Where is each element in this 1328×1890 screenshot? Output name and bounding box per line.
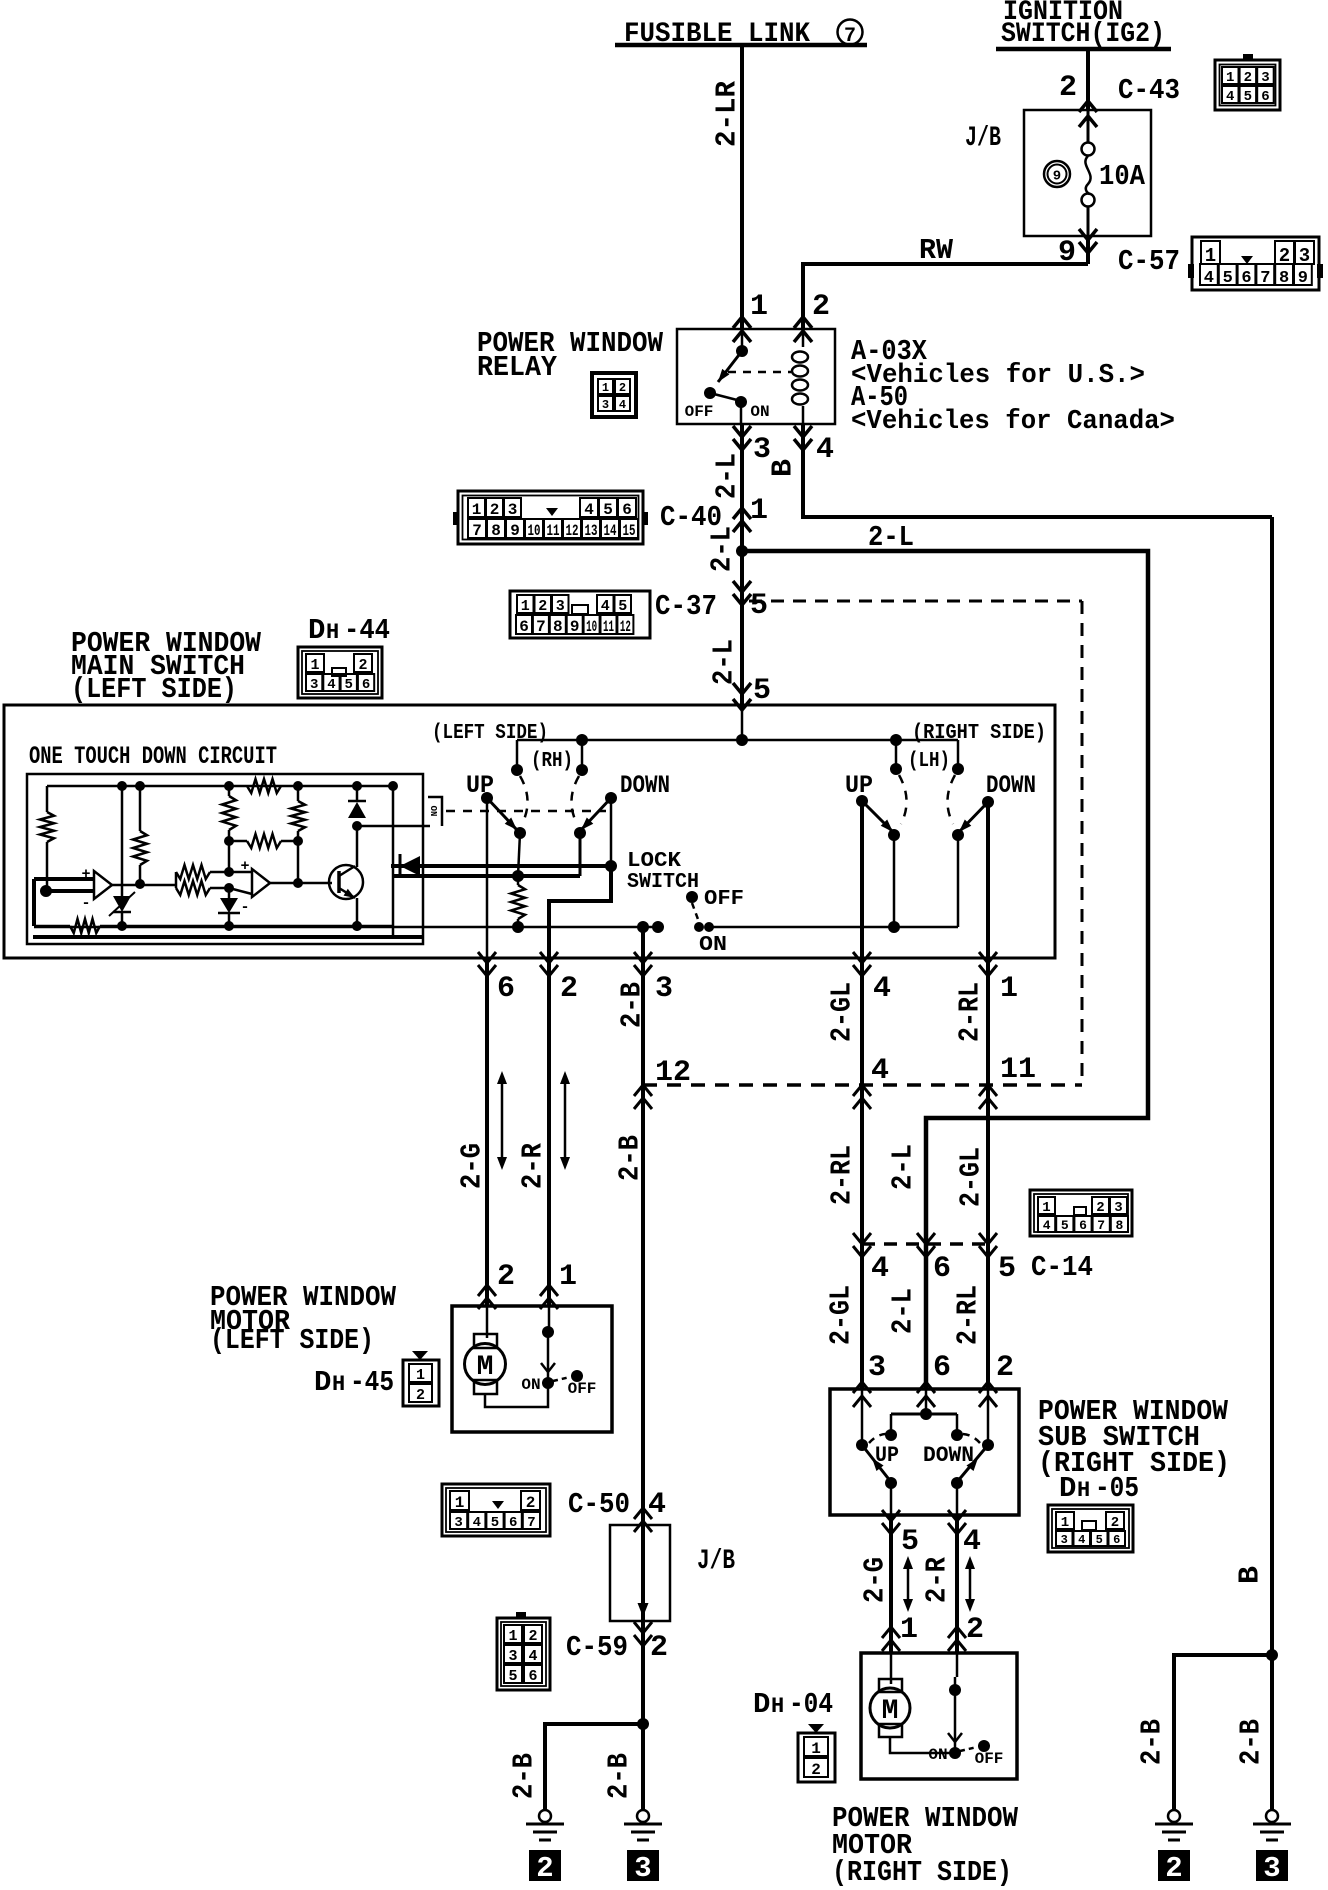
svg-text:10A: 10A bbox=[1099, 160, 1146, 193]
svg-text:3: 3 bbox=[508, 501, 518, 519]
svg-text:(RIGHT SIDE): (RIGHT SIDE) bbox=[912, 722, 1046, 745]
svg-text:2-LR: 2-LR bbox=[711, 80, 744, 147]
svg-text:2: 2 bbox=[536, 1852, 553, 1885]
svg-text:2: 2 bbox=[497, 1260, 515, 1294]
svg-text:7: 7 bbox=[536, 618, 546, 636]
svg-text:5: 5 bbox=[508, 1668, 517, 1685]
svg-text:2: 2 bbox=[490, 501, 500, 519]
svg-text:ON: ON bbox=[928, 1746, 947, 1764]
svg-text:1: 1 bbox=[521, 598, 530, 615]
svg-text:(LH): (LH) bbox=[908, 750, 950, 773]
svg-text:6: 6 bbox=[497, 972, 515, 1006]
svg-text:3: 3 bbox=[1061, 1533, 1068, 1547]
svg-text:2: 2 bbox=[1059, 71, 1077, 105]
svg-text:ONE TOUCH DOWN CIRCUIT: ONE TOUCH DOWN CIRCUIT bbox=[29, 742, 277, 771]
svg-text:6: 6 bbox=[362, 677, 370, 693]
svg-text:4: 4 bbox=[871, 1252, 889, 1286]
svg-text:-05: -05 bbox=[1095, 1472, 1139, 1505]
svg-text:2: 2 bbox=[560, 972, 578, 1006]
svg-text:3: 3 bbox=[1114, 1200, 1122, 1216]
svg-text:11: 11 bbox=[603, 618, 614, 636]
svg-text:1: 1 bbox=[750, 290, 768, 324]
svg-text:C-37: C-37 bbox=[655, 590, 717, 623]
svg-text:3: 3 bbox=[310, 677, 318, 693]
svg-text:2: 2 bbox=[650, 1631, 668, 1665]
svg-text:2: 2 bbox=[966, 1613, 984, 1647]
svg-text:5: 5 bbox=[1061, 1218, 1069, 1233]
svg-text:1: 1 bbox=[900, 1613, 918, 1647]
svg-text:6: 6 bbox=[622, 501, 632, 519]
svg-text:5: 5 bbox=[491, 1515, 499, 1531]
svg-text:6: 6 bbox=[509, 1515, 517, 1531]
svg-text:6: 6 bbox=[519, 618, 529, 636]
svg-text:OFF: OFF bbox=[704, 888, 744, 911]
svg-text:4: 4 bbox=[327, 677, 335, 693]
svg-text:2-GL: 2-GL bbox=[825, 1285, 858, 1345]
svg-text:D: D bbox=[1059, 1472, 1076, 1505]
svg-text:9: 9 bbox=[1053, 169, 1061, 185]
svg-text:2: 2 bbox=[1165, 1852, 1182, 1885]
svg-text:3: 3 bbox=[556, 598, 565, 615]
svg-text:11: 11 bbox=[547, 522, 560, 540]
svg-text:4: 4 bbox=[584, 501, 594, 519]
svg-text:B: B bbox=[1234, 1566, 1267, 1584]
svg-text:12: 12 bbox=[566, 522, 579, 540]
svg-text:2: 2 bbox=[1111, 1515, 1119, 1531]
svg-text:5: 5 bbox=[618, 598, 627, 615]
svg-text:OFF: OFF bbox=[975, 1750, 1004, 1768]
svg-text:2-L: 2-L bbox=[868, 521, 914, 554]
svg-text:3: 3 bbox=[634, 1852, 651, 1885]
svg-text:2-B: 2-B bbox=[1136, 1719, 1169, 1765]
svg-text:DOWN: DOWN bbox=[986, 771, 1036, 800]
svg-text:C-14: C-14 bbox=[1031, 1251, 1093, 1284]
svg-text:C-57: C-57 bbox=[1118, 245, 1180, 278]
svg-text:6: 6 bbox=[933, 1351, 951, 1385]
svg-text:H: H bbox=[771, 1694, 784, 1719]
svg-text:10: 10 bbox=[528, 522, 541, 540]
svg-text:M: M bbox=[477, 1352, 494, 1383]
svg-text:RELAY: RELAY bbox=[477, 351, 558, 384]
svg-text:4: 4 bbox=[1204, 269, 1214, 288]
svg-text:H: H bbox=[1077, 1478, 1090, 1503]
svg-text:M: M bbox=[882, 1696, 899, 1727]
svg-text:1: 1 bbox=[508, 1628, 517, 1645]
svg-text:5: 5 bbox=[603, 501, 613, 519]
svg-text:9: 9 bbox=[510, 522, 520, 540]
svg-text:4: 4 bbox=[816, 433, 834, 467]
svg-text:1: 1 bbox=[750, 494, 768, 528]
svg-text:2: 2 bbox=[811, 1761, 821, 1779]
svg-text:DOWN: DOWN bbox=[620, 771, 670, 800]
svg-text:1: 1 bbox=[811, 1740, 821, 1758]
svg-text:4: 4 bbox=[619, 398, 626, 412]
svg-text:2: 2 bbox=[812, 290, 830, 324]
svg-text:SWITCH: SWITCH bbox=[627, 871, 699, 894]
svg-text:SWITCH(IG2): SWITCH(IG2) bbox=[1001, 19, 1165, 50]
svg-text:6: 6 bbox=[528, 1668, 537, 1685]
svg-text:13: 13 bbox=[585, 522, 598, 540]
svg-text:7: 7 bbox=[527, 1515, 535, 1531]
svg-text:2-B: 2-B bbox=[603, 1753, 636, 1799]
svg-text:D: D bbox=[308, 614, 325, 647]
svg-text:C-50: C-50 bbox=[568, 1488, 630, 1521]
svg-text:4: 4 bbox=[648, 1488, 666, 1522]
svg-text:-45: -45 bbox=[350, 1366, 394, 1399]
svg-text:3: 3 bbox=[454, 1515, 462, 1531]
svg-text:7: 7 bbox=[1260, 269, 1270, 288]
svg-text:-44: -44 bbox=[344, 614, 390, 647]
svg-text:J/B: J/B bbox=[965, 123, 1001, 154]
svg-text:OFF: OFF bbox=[568, 1380, 597, 1398]
svg-text:2-L: 2-L bbox=[711, 453, 744, 499]
svg-text:J/B: J/B bbox=[697, 1546, 735, 1577]
svg-text:2: 2 bbox=[538, 598, 547, 615]
svg-text:(RH): (RH) bbox=[531, 750, 573, 773]
svg-text:2-L: 2-L bbox=[706, 526, 739, 572]
svg-text:ON: ON bbox=[521, 1376, 540, 1394]
svg-text:14: 14 bbox=[604, 522, 617, 540]
svg-text:B: B bbox=[767, 459, 800, 477]
svg-text:2: 2 bbox=[358, 657, 367, 674]
svg-text:6: 6 bbox=[1113, 1533, 1120, 1547]
svg-text:1: 1 bbox=[1226, 70, 1234, 86]
svg-text:-: - bbox=[240, 899, 249, 916]
svg-text:7: 7 bbox=[1097, 1218, 1105, 1233]
svg-text:8: 8 bbox=[553, 618, 563, 636]
svg-text:2-L: 2-L bbox=[708, 639, 741, 685]
svg-text:2-RL: 2-RL bbox=[826, 1145, 859, 1205]
svg-text:H: H bbox=[326, 620, 339, 645]
svg-text:3: 3 bbox=[1261, 70, 1269, 86]
svg-text:H: H bbox=[332, 1372, 345, 1397]
svg-text:<Vehicles for Canada>: <Vehicles for Canada> bbox=[851, 407, 1175, 437]
svg-text:(LEFT SIDE): (LEFT SIDE) bbox=[432, 722, 548, 745]
svg-text:1: 1 bbox=[559, 1260, 577, 1294]
svg-text:1: 1 bbox=[602, 381, 609, 395]
svg-text:2-RL: 2-RL bbox=[952, 1285, 985, 1345]
svg-text:2: 2 bbox=[1096, 1200, 1104, 1216]
svg-text:2: 2 bbox=[1244, 70, 1252, 86]
svg-text:2-GL: 2-GL bbox=[955, 1147, 988, 1207]
svg-text:2-L: 2-L bbox=[887, 1288, 920, 1334]
svg-text:NO: NO bbox=[430, 805, 440, 816]
svg-text:6: 6 bbox=[933, 1252, 951, 1286]
svg-text:(LEFT SIDE): (LEFT SIDE) bbox=[71, 673, 237, 706]
svg-text:2-G: 2-G bbox=[859, 1557, 892, 1603]
svg-text:2: 2 bbox=[619, 381, 626, 395]
svg-text:4: 4 bbox=[1078, 1533, 1085, 1547]
svg-text:ON: ON bbox=[699, 934, 727, 957]
svg-text:3: 3 bbox=[508, 1648, 517, 1665]
svg-text:1: 1 bbox=[1000, 972, 1018, 1006]
svg-text:(RIGHT SIDE): (RIGHT SIDE) bbox=[832, 1856, 1012, 1889]
svg-text:4: 4 bbox=[473, 1515, 481, 1531]
svg-text:1: 1 bbox=[416, 1367, 425, 1384]
svg-text:6: 6 bbox=[1079, 1218, 1087, 1233]
svg-text:4: 4 bbox=[1043, 1218, 1051, 1233]
svg-text:2-R: 2-R bbox=[517, 1142, 550, 1189]
svg-text:1: 1 bbox=[310, 657, 319, 674]
svg-text:4: 4 bbox=[1226, 89, 1234, 105]
svg-text:1: 1 bbox=[1061, 1515, 1069, 1531]
svg-text:2: 2 bbox=[526, 1494, 536, 1512]
svg-text:5: 5 bbox=[998, 1252, 1016, 1286]
svg-text:OFF: OFF bbox=[685, 403, 714, 421]
svg-text:3: 3 bbox=[868, 1351, 886, 1385]
svg-text:C-43: C-43 bbox=[1118, 74, 1180, 107]
svg-text:8: 8 bbox=[1115, 1218, 1123, 1233]
svg-text:1: 1 bbox=[472, 501, 482, 519]
svg-text:LOCK: LOCK bbox=[627, 850, 681, 873]
svg-text:2: 2 bbox=[996, 1351, 1014, 1385]
svg-text:2-G: 2-G bbox=[456, 1143, 489, 1189]
svg-text:DOWN: DOWN bbox=[923, 1443, 974, 1468]
svg-text:5: 5 bbox=[750, 589, 768, 623]
svg-text:2-L: 2-L bbox=[887, 1144, 920, 1190]
svg-text:4: 4 bbox=[873, 972, 891, 1006]
svg-text:-04: -04 bbox=[789, 1688, 833, 1721]
svg-text:5: 5 bbox=[901, 1525, 919, 1559]
svg-text:2-B: 2-B bbox=[1235, 1719, 1268, 1765]
svg-text:3: 3 bbox=[655, 972, 673, 1006]
svg-text:(LEFT SIDE): (LEFT SIDE) bbox=[210, 1324, 374, 1357]
svg-text:12: 12 bbox=[655, 1056, 691, 1090]
svg-text:2-RL: 2-RL bbox=[954, 982, 987, 1042]
svg-text:4: 4 bbox=[963, 1525, 981, 1559]
svg-text:RW: RW bbox=[919, 234, 954, 267]
svg-text:2-GL: 2-GL bbox=[826, 982, 859, 1042]
svg-text:6: 6 bbox=[1261, 89, 1269, 105]
svg-text:2-R: 2-R bbox=[921, 1556, 954, 1603]
svg-text:4: 4 bbox=[871, 1054, 889, 1088]
svg-text:-: - bbox=[81, 895, 90, 912]
svg-text:2-B: 2-B bbox=[508, 1753, 541, 1799]
svg-text:5: 5 bbox=[1096, 1533, 1103, 1547]
svg-text:4: 4 bbox=[601, 598, 610, 615]
svg-text:UP: UP bbox=[845, 771, 873, 800]
svg-text:8: 8 bbox=[491, 522, 501, 540]
svg-text:D: D bbox=[753, 1688, 770, 1721]
svg-text:9: 9 bbox=[570, 618, 580, 636]
svg-text:5: 5 bbox=[1244, 89, 1252, 105]
svg-text:5: 5 bbox=[1223, 269, 1233, 288]
svg-text:15: 15 bbox=[623, 522, 636, 540]
svg-text:8: 8 bbox=[1279, 269, 1289, 288]
svg-text:ON: ON bbox=[750, 403, 769, 421]
svg-text:9: 9 bbox=[1298, 269, 1308, 288]
svg-text:2-B: 2-B bbox=[614, 1135, 647, 1181]
svg-text:1: 1 bbox=[455, 1494, 465, 1512]
svg-text:2: 2 bbox=[528, 1628, 537, 1645]
svg-text:5: 5 bbox=[753, 674, 771, 708]
svg-text:6: 6 bbox=[1241, 269, 1251, 288]
svg-text:5: 5 bbox=[345, 677, 353, 693]
svg-text:7: 7 bbox=[472, 522, 482, 540]
svg-text:1: 1 bbox=[1042, 1200, 1050, 1216]
svg-text:4: 4 bbox=[528, 1648, 537, 1665]
svg-text:C-59: C-59 bbox=[566, 1631, 628, 1664]
svg-text:10: 10 bbox=[586, 618, 597, 636]
svg-text:12: 12 bbox=[620, 618, 631, 636]
svg-text:11: 11 bbox=[1000, 1053, 1036, 1087]
svg-text:D: D bbox=[314, 1366, 331, 1399]
svg-text:2: 2 bbox=[416, 1387, 425, 1404]
svg-text:3: 3 bbox=[1263, 1852, 1280, 1885]
svg-text:3: 3 bbox=[602, 398, 609, 412]
svg-text:2-B: 2-B bbox=[616, 982, 649, 1028]
